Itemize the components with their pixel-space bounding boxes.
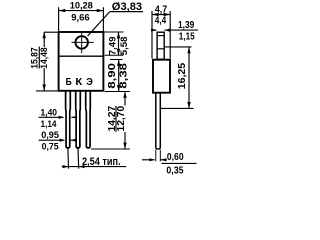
svg-text:14,48: 14,48: [38, 47, 49, 69]
svg-text:0,75: 0,75: [42, 141, 60, 152]
fraction bar 14,27/12,70: [115, 106, 117, 132]
ext line right top: [102, 7, 104, 31]
dim line: [152, 14, 170, 16]
ext line top: [44, 31, 58, 33]
pin width dim 1,40/1,14: [39, 116, 78, 119]
svg-text:12,70: 12,70: [116, 105, 127, 131]
pin length dim 14,27/12,70: [123, 92, 126, 150]
svg-text:Ø3,83: Ø3,83: [112, 1, 142, 13]
ext line package top right: [104, 31, 124, 33]
ext line pin tips: [91, 148, 130, 150]
svg-text:10,28: 10,28: [70, 1, 94, 12]
dim line: [62, 166, 126, 168]
fraction bar 15,87/14,48: [38, 47, 40, 69]
ext from pin right edge down: [159, 150, 161, 162]
ext line top: [165, 46, 192, 48]
svg-text:Б: Б: [66, 77, 72, 88]
svg-text:1,40: 1,40: [41, 108, 58, 119]
hole crosshair vertical: [81, 33, 83, 53]
svg-text:0,35: 0,35: [166, 165, 183, 176]
left arrow: [142, 159, 155, 161]
ext line right: [169, 11, 171, 59]
dim line top segment: [124, 92, 126, 106]
svg-text:1,15: 1,15: [179, 32, 195, 43]
right arrow: [161, 159, 167, 161]
body side profile: [153, 60, 170, 93]
svg-text:Э: Э: [86, 77, 93, 88]
svg-text:К: К: [75, 77, 83, 88]
pin thickness dim 0,60/0,35: [142, 158, 197, 163]
svg-text:2,54 тип.: 2,54 тип.: [82, 156, 121, 168]
leader from label with arrow to tab: [164, 29, 198, 31]
svg-text:0,95: 0,95: [41, 130, 59, 141]
tab side profile: [157, 32, 164, 59]
leader for hole diameter: [88, 12, 143, 36]
svg-text:16,25: 16,25: [177, 62, 188, 89]
side view: [153, 32, 170, 161]
tab/body boundary: [58, 55, 105, 57]
svg-text:9,66: 9,66: [71, 13, 89, 24]
ext line bottom: [161, 107, 194, 109]
body thickness dim 4,7/4,4: [152, 11, 170, 59]
svg-text:1,39: 1,39: [178, 20, 195, 31]
mounting hole: [75, 36, 88, 49]
side pin: [156, 93, 161, 149]
top width dimension 10,28/9,66: [59, 7, 104, 31]
ext from pin left edge down: [155, 150, 157, 162]
dim 7,49/5,58: [117, 32, 120, 55]
ext line left top: [58, 7, 60, 31]
pin width dim 0,95/0,75: [39, 139, 77, 142]
dim line 15,87 top segment: [43, 32, 45, 47]
ext from pin2: [77, 148, 80, 168]
tab thickness dim 1,39/1,15: [151, 29, 198, 32]
svg-text:8,90: 8,90: [107, 62, 118, 88]
pin 2: [76, 92, 81, 148]
left height dimension 15,87/14,48: [36, 32, 58, 91]
hole edge top in tab: [157, 35, 164, 37]
dim line 10,28: [59, 10, 104, 12]
hole edge bottom in tab: [157, 48, 164, 50]
pin 3: [86, 92, 91, 148]
svg-text:4,4: 4,4: [155, 16, 167, 27]
pitch dim 2,54: [62, 148, 126, 168]
fraction bar 0,60/0,35: [162, 162, 197, 164]
svg-text:4,7: 4,7: [155, 5, 168, 16]
svg-text:8,38: 8,38: [119, 62, 130, 88]
svg-text:0,60: 0,60: [167, 152, 184, 163]
ext line side body top stub: [110, 59, 123, 61]
pin 1: [66, 92, 71, 148]
ext line front boundary right: [105, 54, 124, 56]
svg-text:5,58: 5,58: [119, 37, 130, 56]
dim 16,25: [161, 47, 194, 109]
svg-text:7,49: 7,49: [108, 37, 119, 56]
ext line body bottom right: [105, 91, 130, 93]
ext line left: [151, 11, 153, 59]
ext from pin1: [67, 148, 70, 168]
dim 8,90/8,38: [117, 60, 120, 92]
package front view outline: [58, 32, 105, 91]
package outline rect: [59, 32, 104, 91]
svg-text:1,14: 1,14: [41, 119, 58, 130]
ext lines between views: [91, 32, 130, 149]
ext line bottom: [36, 90, 58, 92]
dim line 15,87 bottom segment: [43, 68, 45, 91]
dim line bottom segment: [124, 132, 126, 149]
left arrow: [151, 29, 156, 31]
dim line: [188, 47, 190, 109]
hole crosshair horizontal: [72, 41, 94, 43]
